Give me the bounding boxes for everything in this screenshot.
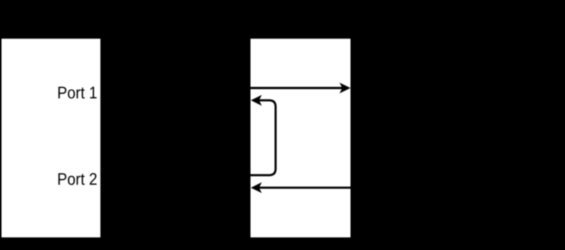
arrow left (Port 2 in) [251,182,351,193]
label Port 1 [58,87,96,99]
box middle (loopback box) [251,39,351,238]
box left (ports box) [2,39,101,238]
label Port 2 [58,173,96,185]
arrow right (Port 1 out) [251,83,351,94]
arrow loop (self loopback) [251,95,276,175]
